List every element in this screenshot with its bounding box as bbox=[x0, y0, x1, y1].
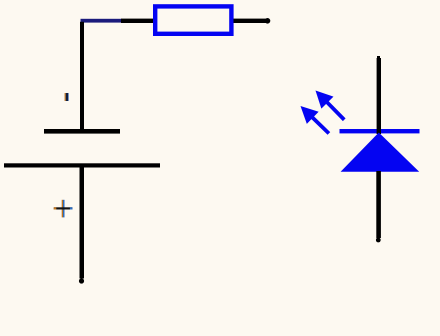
resistor R1 bbox=[155, 6, 231, 33]
wire: left vertical from corner down to battery bbox=[80, 22, 84, 130]
wire: top horizontal black segment to resistor bbox=[121, 19, 154, 23]
wire: bottom vertical from positive plate down bbox=[80, 168, 85, 279]
node: right wire end dot bbox=[265, 18, 271, 24]
node: bottom wire end dot bbox=[79, 278, 84, 283]
label: minus mark bbox=[65, 93, 69, 101]
wire: LED bottom vertical bbox=[376, 171, 381, 238]
LED light arrow upper bbox=[309, 85, 350, 126]
battery BT1 positive plate (long) bbox=[4, 163, 160, 167]
LED D1 triangle bbox=[341, 133, 420, 172]
LED light arrow lower bbox=[295, 100, 335, 140]
battery BT1 negative plate (short) bbox=[44, 129, 120, 134]
wire: top horizontal navy segment from corner to mid bbox=[81, 19, 122, 23]
LED D1 cathode bar bbox=[340, 129, 420, 133]
node: LED top end tick bbox=[377, 56, 380, 59]
wire: LED top vertical bbox=[377, 58, 381, 134]
node: LED bottom end dot bbox=[376, 238, 381, 243]
wire: black segment right of resistor bbox=[234, 19, 267, 23]
label: plus sign bbox=[54, 200, 73, 218]
